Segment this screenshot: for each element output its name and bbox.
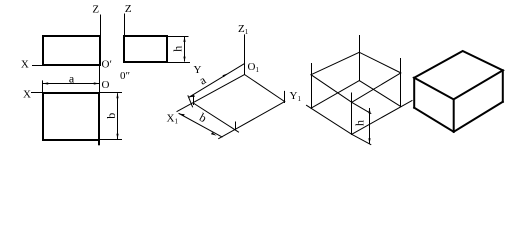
wireframe box vertical left	[311, 64, 313, 109]
svg-text:Z: Z	[125, 3, 132, 15]
parallelogram edge A-C	[194, 104, 239, 133]
svg-text:h: h	[353, 120, 367, 126]
b dimension line axonometric	[179, 114, 222, 138]
b dim arrow up	[116, 93, 118, 99]
solid box vertical left	[413, 78, 415, 108]
svg-text:X: X	[21, 59, 29, 71]
h dim arrow down	[183, 57, 185, 63]
b dimension extension bottom	[99, 139, 122, 141]
svg-text:X: X	[23, 89, 31, 101]
a dimension line axonometric	[189, 64, 245, 98]
b dim arrow lower-right	[211, 132, 217, 135]
svg-text:Z: Z	[92, 4, 99, 16]
projection line between views	[99, 65, 101, 93]
h dimension extension top	[167, 36, 188, 38]
h dimension line wireframe	[369, 109, 371, 144]
solid box top face	[414, 51, 503, 99]
Y axis of side view	[125, 62, 190, 64]
b dimension line	[117, 94, 119, 139]
h dimension extension bottom wireframe	[352, 134, 371, 144]
svg-text:h: h	[171, 46, 185, 52]
h dim arrow up wireframe	[368, 108, 370, 114]
wireframe Y1 axis line through Eb	[352, 101, 412, 135]
svg-text:O′: O′	[102, 59, 112, 71]
wireframe box vertical front	[351, 93, 353, 134]
Z axis of side view	[124, 14, 126, 62]
a dimension line	[44, 83, 100, 85]
a dimension extension left	[42, 81, 44, 93]
wireframe top face edge W-S	[311, 75, 352, 103]
h dimension line	[184, 38, 186, 62]
solid box bottom edge right	[454, 102, 503, 132]
svg-text:b: b	[104, 113, 118, 119]
X axis of front view	[33, 65, 101, 67]
b dim arrow down	[116, 134, 118, 140]
a dim arrow right	[94, 82, 100, 84]
solid box bottom edge left	[414, 108, 454, 132]
a dimension extension at A	[188, 96, 193, 107]
wireframe bottom face edge Wb-front with overshoot	[307, 105, 352, 134]
solid box vertical front	[453, 99, 455, 131]
h dim arrow up	[183, 36, 185, 42]
axonometric Y1 axis	[245, 75, 285, 102]
wireframe top face edge N-W	[311, 52, 359, 74]
axonometric Z1 axis	[244, 35, 246, 75]
parallelogram edge B-C with overshoot	[219, 102, 285, 139]
Z axis of front view	[100, 15, 102, 65]
wireframe bottom face edge Wb-Nb	[311, 81, 359, 109]
a dim arrow upper-right	[223, 73, 229, 77]
wireframe box vertical right	[400, 59, 402, 107]
a dim arrow left	[43, 82, 49, 84]
svg-text:a: a	[69, 72, 75, 86]
top view rectangle	[43, 93, 99, 140]
vertical tick at corner B	[284, 91, 286, 102]
a dim arrow lower-left	[189, 95, 195, 98]
solid box vertical right	[502, 70, 504, 102]
svg-text:0″: 0″	[120, 70, 130, 82]
wireframe top face edge S-E	[352, 73, 401, 102]
vertical tick at corner A	[193, 96, 195, 105]
h dimension extension top wireframe	[352, 102, 371, 113]
axonometric X1 axis	[177, 75, 245, 112]
b dim arrow upper-left	[179, 114, 185, 117]
side view rectangle	[124, 36, 167, 62]
svg-text:O: O	[102, 79, 110, 91]
vertical tick at corner C	[235, 122, 237, 130]
front view rectangle	[43, 36, 100, 65]
wireframe bottom face edge Nb-Eb	[359, 81, 401, 107]
top view right edge overshoot	[98, 140, 100, 144]
h dim arrow down wireframe	[368, 138, 370, 144]
X axis of top view	[32, 92, 122, 94]
wireframe top face edge N-E	[359, 52, 401, 73]
wireframe box vertical back	[359, 36, 361, 81]
